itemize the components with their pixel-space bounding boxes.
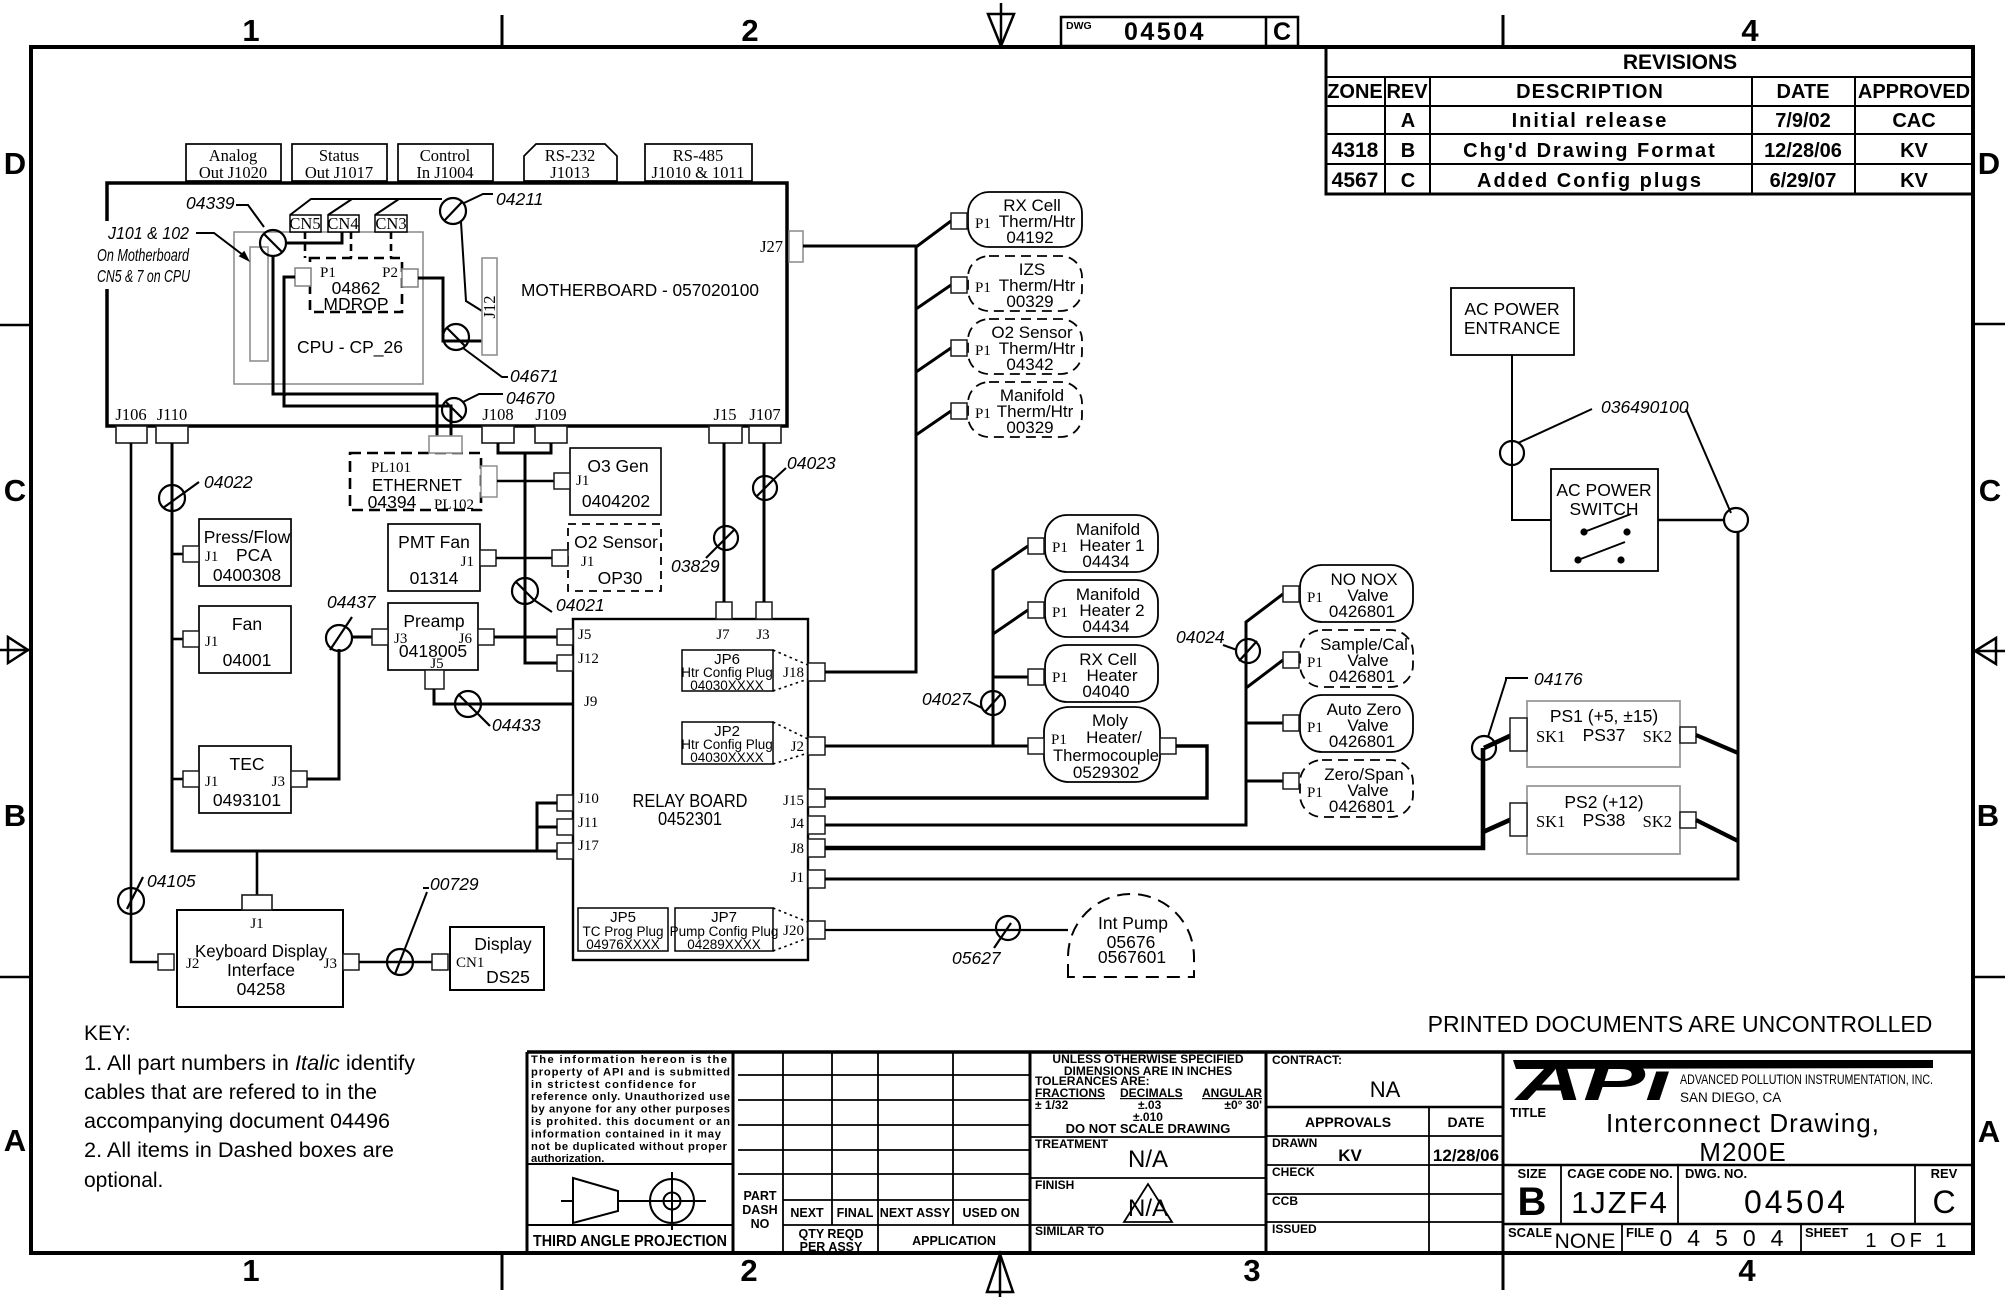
wire CN bus to J12: [290, 199, 482, 311]
connector Control In J1004: [398, 144, 493, 182]
RX Cell Heater 04040: [1045, 645, 1158, 702]
svg-text:CPU - CP_26: CPU - CP_26: [297, 337, 403, 358]
Moly Heater/Thermocouple 0529302: [1044, 707, 1160, 782]
svg-text:12/28/06: 12/28/06: [1764, 140, 1842, 162]
svg-text:P1: P1: [1307, 590, 1323, 606]
svg-text:3: 3: [1243, 1253, 1260, 1288]
Manifold Heater 1 04434: [1045, 515, 1158, 572]
wire AC riser to relay J1: [825, 532, 1738, 879]
svg-text:J1: J1: [461, 554, 474, 570]
connector J101/J102: [250, 247, 268, 361]
svg-text:±0° 30': ±0° 30': [1224, 1098, 1262, 1112]
wire J110 trunk: [172, 443, 557, 851]
svg-text:Preamp: Preamp: [403, 611, 464, 631]
svg-text:CN5: CN5: [289, 214, 320, 233]
svg-text:PRINTED DOCUMENTS ARE UNCONTRO: PRINTED DOCUMENTS ARE UNCONTROLLED: [1428, 1011, 1933, 1037]
svg-text:J1: J1: [791, 870, 804, 886]
svg-text:PMT Fan: PMT Fan: [398, 532, 470, 552]
svg-text:KV: KV: [1900, 140, 1928, 162]
svg-text:A: A: [1401, 110, 1415, 132]
svg-text:M200E: M200E: [1699, 1137, 1786, 1167]
svg-text:A: A: [4, 1123, 26, 1158]
svg-text:± 1/32: ± 1/32: [1035, 1098, 1069, 1112]
svg-text:P1: P1: [1052, 670, 1068, 686]
svg-text:J8: J8: [791, 841, 804, 857]
connector J1 relay: [808, 870, 825, 888]
wire TEC J3 to preamp J3: [307, 649, 339, 779]
connector P1 moly: [1028, 738, 1044, 754]
connector RS-232 J1013: [524, 144, 617, 182]
JP6 Htr Config Plug: [681, 650, 808, 693]
connector J4 relay: [808, 816, 825, 834]
svg-text:0404202: 0404202: [582, 491, 650, 511]
connector P1 sample/cal: [1283, 652, 1299, 668]
svg-text:P2: P2: [382, 265, 398, 281]
wire to Press/Flow J1: [172, 553, 183, 556]
wire keyboard J1 riser: [256, 851, 259, 895]
svg-text:J1: J1: [205, 774, 218, 790]
wire 04339 circle to CN4: [286, 232, 342, 243]
svg-text:J15: J15: [783, 793, 804, 809]
PMT Fan 01314: [388, 524, 480, 591]
wire J108/J109 trunk to relay J12: [498, 443, 557, 663]
svg-text:J1013: J1013: [550, 163, 589, 182]
svg-text:J101 & 102: J101 & 102: [107, 223, 189, 243]
svg-text:is prohited. this documen: is prohited. this document or an: [531, 1116, 730, 1128]
cable 04670: [442, 388, 555, 422]
svg-text:04023: 04023: [787, 453, 836, 473]
svg-text:SAN DIEGO, CA: SAN DIEGO, CA: [1680, 1090, 1781, 1105]
svg-text:PL101: PL101: [371, 460, 411, 476]
contract block: [1272, 1053, 1485, 1236]
svg-text:PS37: PS37: [1583, 725, 1626, 745]
size/cage/dwg/rev row: [1503, 1165, 1973, 1253]
svg-text:03829: 03829: [671, 556, 720, 576]
svg-text:PCA: PCA: [236, 545, 272, 565]
svg-text:N/A: N/A: [1128, 1195, 1168, 1222]
cable 04671: [443, 324, 559, 386]
svg-text:0426801: 0426801: [1329, 602, 1395, 621]
connector Analog Out J1020: [186, 144, 281, 182]
svg-text:0426801: 0426801: [1329, 732, 1395, 751]
wire to Fan J1: [172, 638, 183, 641]
svg-text:12/28/06: 12/28/06: [1433, 1146, 1499, 1165]
Sample/Cal Valve 0426801: [1300, 630, 1413, 687]
svg-text:04176: 04176: [1534, 669, 1583, 689]
Manifold Therm/Htr 00329: [968, 382, 1082, 437]
wire entrance to switch: [1512, 355, 1551, 520]
connector J12 relay: [557, 655, 573, 671]
svg-text:PER ASSY: PER ASSY: [800, 1240, 863, 1254]
svg-text:On Motherboard: On Motherboard: [97, 245, 190, 265]
svg-text:04394: 04394: [368, 492, 417, 512]
svg-text:CHECK: CHECK: [1272, 1165, 1315, 1179]
svg-text:0567601: 0567601: [1098, 947, 1166, 967]
connector J1 O3 Gen: [554, 473, 570, 489]
svg-text:TITLE: TITLE: [1510, 1105, 1546, 1120]
Display DS25: [450, 927, 544, 990]
note J101 & 102: [97, 223, 250, 286]
svg-text:036490100: 036490100: [1601, 397, 1689, 417]
Fan 04001: [199, 606, 291, 673]
Keyboard Display Interface 04258: [177, 910, 343, 1007]
wire moly to relay J15: [825, 746, 1207, 798]
connector P1 zero/span: [1283, 773, 1299, 789]
connector CN1 display: [432, 954, 448, 970]
svg-text:J18: J18: [783, 665, 804, 681]
svg-text:B: B: [1518, 1180, 1547, 1224]
svg-text:by anyone for any other p: by anyone for any other purposes: [531, 1104, 730, 1116]
O3 Gen 0404202: [570, 448, 661, 515]
CPU CP_26: [234, 232, 423, 384]
svg-text:reference only. Unauthoriz: reference only. Unauthorized use: [531, 1091, 730, 1103]
fold marker flag top: [988, 3, 1014, 47]
svg-text:05627: 05627: [952, 948, 1002, 968]
IZS Therm/Htr 00329: [968, 256, 1082, 311]
cable 036490100: [1500, 397, 1731, 513]
wire heater trunk: [993, 546, 1028, 746]
svg-text:REV: REV: [1386, 81, 1428, 103]
cable 04437: [326, 592, 377, 651]
wire P1 to ethernet B: [284, 277, 451, 437]
svg-text:J106: J106: [115, 405, 146, 424]
connector P1 MDROP: [295, 268, 311, 286]
svg-text:1: 1: [242, 13, 259, 48]
svg-text:0452301: 0452301: [658, 809, 722, 829]
cable 04339: [186, 193, 286, 256]
svg-text:KV: KV: [1900, 170, 1928, 192]
cable 04021: [512, 578, 605, 615]
wire PS1 SK2 to AC riser: [1696, 735, 1738, 753]
svg-text:A: A: [1978, 1114, 2000, 1149]
connector J3 TEC: [291, 771, 307, 787]
wire MB J15 to relay J7: [723, 443, 726, 602]
svg-text:04342: 04342: [1006, 355, 1053, 374]
legal text: [531, 1054, 730, 1165]
connector CN5: [289, 214, 321, 233]
svg-text:D: D: [1978, 146, 2000, 181]
svg-text:FINISH: FINISH: [1035, 1178, 1074, 1192]
svg-text:04258: 04258: [237, 979, 286, 999]
svg-text:PS1 (+5, ±15): PS1 (+5, ±15): [1550, 706, 1658, 726]
svg-text:04289XXXX: 04289XXXX: [687, 937, 761, 952]
cable 04176: [1472, 669, 1583, 760]
svg-text:6/29/07: 6/29/07: [1770, 170, 1837, 192]
svg-text:ENTRANCE: ENTRANCE: [1464, 318, 1560, 338]
fold marker flag right: [1975, 638, 2005, 664]
AC POWER ENTRANCE: [1451, 288, 1574, 355]
cable 05627: [952, 916, 1020, 968]
svg-text:J1: J1: [250, 916, 263, 932]
wire preamp J5 to relay J9: [434, 689, 573, 704]
svg-text:1JZF4: 1JZF4: [1571, 1185, 1669, 1220]
svg-text:04022: 04022: [204, 472, 253, 492]
svg-text:RELAY BOARD: RELAY BOARD: [633, 791, 748, 811]
connector CN3: [375, 214, 407, 233]
connector SK2 PS1: [1680, 727, 1696, 743]
O2 Sensor Therm/Htr 04342: [968, 319, 1082, 374]
svg-text:SIMILAR TO: SIMILAR TO: [1035, 1224, 1104, 1238]
svg-text:APPLICATION: APPLICATION: [912, 1234, 996, 1248]
svg-text:OP30: OP30: [598, 568, 643, 588]
svg-text:ISSUED: ISSUED: [1272, 1222, 1317, 1236]
svg-text:P1: P1: [1307, 785, 1323, 801]
wire J10/J11/J17 bracket: [537, 803, 557, 851]
svg-text:C: C: [1273, 18, 1291, 46]
svg-text:J20: J20: [783, 923, 804, 939]
svg-text:REV: REV: [1931, 1166, 1958, 1181]
svg-text:O2 Sensor: O2 Sensor: [574, 532, 658, 552]
svg-text:J1: J1: [576, 473, 589, 489]
relay board 0452301: [573, 619, 808, 960]
svg-text:In J1004: In J1004: [416, 163, 473, 182]
svg-text:04040: 04040: [1082, 682, 1129, 701]
JP5 TC Prog Plug: [578, 908, 668, 952]
connector J6 preamp: [478, 629, 494, 645]
svg-text:SIZE: SIZE: [1518, 1166, 1547, 1181]
connector P1 RX heater: [1028, 669, 1044, 685]
svg-text:PS2 (+12): PS2 (+12): [1564, 792, 1643, 812]
svg-text:04024: 04024: [1176, 627, 1225, 647]
connector J11 relay: [557, 819, 573, 835]
svg-text:PART: PART: [743, 1189, 776, 1203]
connector J109: [535, 405, 567, 443]
connector J1 Press/Flow: [183, 546, 199, 562]
svg-text:00329: 00329: [1006, 418, 1053, 437]
svg-text:in strictest confidence for: in strictest confidence for: [531, 1079, 697, 1091]
svg-text:04339: 04339: [186, 193, 235, 213]
wire relay J20 to int pump: [825, 929, 1068, 931]
PS2 PS38: [1527, 786, 1680, 854]
svg-text:accompanying document 04496: accompanying document 04496: [84, 1110, 390, 1133]
svg-text:0400308: 0400308: [213, 565, 281, 585]
motherboard MB 057020100: [107, 183, 787, 426]
svg-text:PL102: PL102: [434, 497, 474, 513]
svg-text:O3 Gen: O3 Gen: [587, 456, 648, 476]
connector J106: [115, 405, 147, 443]
svg-text:J4: J4: [791, 816, 805, 832]
svg-text:SK2: SK2: [1643, 727, 1672, 746]
svg-text:2: 2: [741, 13, 758, 48]
svg-text:4567: 4567: [1332, 169, 1379, 192]
svg-text:00329: 00329: [1006, 292, 1053, 311]
svg-text:DATE: DATE: [1447, 1114, 1484, 1130]
svg-text:SK1: SK1: [1536, 812, 1565, 831]
svg-text:J10: J10: [578, 791, 599, 807]
revisions table: [1326, 47, 1973, 194]
connector J1 PMT fan: [480, 550, 496, 566]
svg-text:ZONE: ZONE: [1327, 81, 1383, 103]
svg-text:J12: J12: [578, 651, 599, 667]
svg-text:P1: P1: [1052, 540, 1068, 556]
svg-text:P1: P1: [1052, 605, 1068, 621]
svg-text:J17: J17: [578, 838, 599, 854]
svg-text:04504: 04504: [1744, 1184, 1848, 1220]
JP7 Pump Config Plug: [670, 908, 808, 952]
wire PS2 SK2 to AC riser: [1696, 820, 1738, 841]
fold marker flag bottom: [987, 1253, 1013, 1297]
cable 03829: [671, 526, 738, 576]
connector Status Out J1017: [292, 144, 387, 182]
svg-text:04437: 04437: [327, 592, 377, 612]
svg-text:ADVANCED POLLUTION INSTRUMENTA: ADVANCED POLLUTION INSTRUMENTATION, INC.: [1680, 1072, 1933, 1087]
svg-text:USED ON: USED ON: [963, 1206, 1020, 1220]
svg-text:04504: 04504: [1660, 1225, 1799, 1251]
svg-text:DS25: DS25: [486, 967, 530, 987]
svg-text:2. All items in Dashed boxes a: 2. All items in Dashed boxes are: [84, 1139, 394, 1162]
connector J108: [482, 405, 514, 443]
svg-text:NONE: NONE: [1555, 1230, 1616, 1253]
svg-text:DO NOT SCALE DRAWING: DO NOT SCALE DRAWING: [1066, 1121, 1231, 1136]
wire J27 to therm trunk and relay J18: [803, 221, 951, 672]
svg-text:P1: P1: [975, 406, 991, 422]
svg-text:04211: 04211: [496, 189, 543, 209]
svg-text:AC POWER: AC POWER: [1464, 299, 1559, 319]
API logo: [1513, 1052, 1933, 1112]
svg-text:C: C: [4, 473, 26, 508]
svg-text:4: 4: [1741, 13, 1759, 48]
svg-text:04030XXXX: 04030XXXX: [690, 678, 764, 693]
svg-text:DESCRIPTION: DESCRIPTION: [1516, 81, 1664, 103]
svg-text:REVISIONS: REVISIONS: [1623, 51, 1737, 74]
svg-text:J3: J3: [756, 627, 769, 643]
svg-text:J1010 & 1011: J1010 & 1011: [652, 163, 745, 182]
svg-text:SK1: SK1: [1536, 727, 1565, 746]
svg-text:01314: 01314: [410, 568, 459, 588]
connector SK1 PS1: [1510, 718, 1527, 751]
svg-text:04105: 04105: [147, 871, 196, 891]
cable 04023: [753, 453, 836, 500]
svg-text:00729: 00729: [430, 874, 479, 894]
connector RS-485 J1010 & 1011: [645, 144, 752, 182]
svg-text:CONTRACT:: CONTRACT:: [1272, 1053, 1342, 1067]
svg-text:cables that are refered to in: cables that are refered to in the: [84, 1081, 377, 1104]
svg-text:Interconnect Drawing,: Interconnect Drawing,: [1606, 1108, 1880, 1138]
svg-text:04001: 04001: [223, 650, 272, 670]
title block frame: [527, 1052, 1973, 1253]
wire MB J107 to relay J3: [763, 443, 766, 602]
connector J7 relay: [716, 602, 732, 619]
svg-text:NEXT: NEXT: [790, 1206, 824, 1220]
connector J110: [156, 405, 188, 443]
svg-text:DWG: DWG: [1066, 20, 1092, 32]
cable 04433: [455, 691, 541, 735]
connector P2 MDROP: [402, 269, 418, 287]
svg-text:CN4: CN4: [327, 214, 358, 233]
svg-text:AC POWER: AC POWER: [1556, 480, 1651, 500]
cable 04211: [440, 189, 543, 224]
wire CPU to ethernet A: [273, 256, 437, 437]
svg-text:SCALE: SCALE: [1508, 1225, 1552, 1240]
svg-text:CAC: CAC: [1892, 110, 1935, 132]
wire CN4 dashed to MDROP: [350, 232, 353, 258]
svg-text:J2: J2: [186, 956, 199, 972]
svg-text:P1: P1: [975, 343, 991, 359]
connector P1 manifold therm: [951, 403, 967, 419]
svg-text:Interface: Interface: [227, 960, 295, 980]
connector J2 KDI: [158, 954, 174, 970]
wire J106 to keyboard J2: [131, 443, 158, 962]
connector SK1 PS2: [1510, 803, 1527, 836]
connector P1 auto zero: [1283, 715, 1299, 731]
svg-text:QTY REQD: QTY REQD: [798, 1227, 863, 1241]
connector PL102 right: [481, 466, 497, 497]
JP2 Htr Config Plug: [681, 722, 808, 765]
svg-text:0426801: 0426801: [1329, 797, 1395, 816]
svg-text:FILE: FILE: [1626, 1225, 1654, 1240]
Preamp 0418005: [388, 603, 478, 672]
svg-text:J3: J3: [324, 956, 337, 972]
svg-text:J1: J1: [581, 554, 594, 570]
TEC 0493101: [199, 746, 291, 813]
connector J2 relay: [808, 737, 825, 755]
svg-text:APi: APi: [1513, 1052, 1673, 1112]
svg-text:CCB: CCB: [1272, 1194, 1298, 1208]
svg-text:MDROP: MDROP: [323, 294, 388, 314]
svg-text:TEC: TEC: [230, 754, 265, 774]
svg-text:J15: J15: [714, 405, 737, 424]
svg-text:DASH: DASH: [742, 1203, 777, 1217]
svg-text:04434: 04434: [1082, 617, 1129, 636]
svg-text:Out J1020: Out J1020: [199, 163, 267, 182]
svg-text:J110: J110: [157, 405, 188, 424]
svg-text:J9: J9: [584, 694, 597, 710]
wire relay J2 to moly heater: [825, 745, 1028, 748]
svg-text:Added Config plugs: Added Config plugs: [1477, 170, 1703, 192]
wire CN5 dashed to MDROP: [304, 232, 307, 258]
wire relay J4 to valve trunk: [825, 594, 1283, 825]
wire switch to PS riser: [1658, 519, 1724, 522]
svg-text:04976XXXX: 04976XXXX: [586, 937, 660, 952]
svg-text:P1: P1: [1307, 655, 1323, 671]
svg-text:APPROVED: APPROVED: [1858, 81, 1970, 103]
svg-text:J2: J2: [791, 739, 804, 755]
connector J1 KDI: [242, 895, 272, 910]
svg-text:The information hereon is: The information hereon is the: [531, 1054, 727, 1066]
application block grid: [738, 1052, 1030, 1253]
connector J12: [480, 258, 499, 355]
wire relay J8 to PS SK1: [825, 735, 1512, 848]
connector P1 IZS: [951, 277, 967, 293]
svg-text:04027: 04027: [922, 689, 972, 709]
svg-text:P1: P1: [975, 280, 991, 296]
svg-text:CN5 & 7 on CPU: CN5 & 7 on CPU: [97, 266, 190, 286]
svg-text:Heater/: Heater/: [1086, 728, 1142, 747]
svg-text:DWG. NO.: DWG. NO.: [1685, 1166, 1747, 1181]
svg-text:Display: Display: [474, 934, 532, 954]
svg-text:property of API and is su: property of API and is submitted: [531, 1066, 730, 1078]
svg-text:Press/Flow: Press/Flow: [204, 527, 291, 547]
connector J10 relay: [557, 795, 573, 811]
Auto Zero Valve 0426801: [1300, 695, 1413, 752]
PS1 PS37: [1527, 701, 1680, 767]
svg-text:0426801: 0426801: [1329, 667, 1395, 686]
svg-text:KV: KV: [1338, 1146, 1362, 1165]
svg-text:APPROVALS: APPROVALS: [1305, 1114, 1391, 1130]
svg-text:04434: 04434: [1082, 552, 1129, 571]
connector P1 MH1: [1028, 538, 1044, 554]
svg-text:Chg'd Drawing Format: Chg'd Drawing Format: [1463, 140, 1717, 162]
Manifold Heater 2 04434: [1045, 580, 1158, 637]
svg-text:J5: J5: [578, 627, 591, 643]
svg-text:not be duplicated without: not be duplicated without proper: [531, 1141, 728, 1153]
svg-text:Keyboard Display: Keyboard Display: [195, 941, 327, 961]
svg-text:J7: J7: [716, 627, 730, 643]
connector J1 O2 sensor: [552, 550, 568, 566]
svg-text:J1: J1: [205, 549, 218, 565]
cable 04027: [922, 689, 1005, 715]
svg-text:THIRD ANGLE PROJECTION: THIRD ANGLE PROJECTION: [533, 1233, 727, 1250]
